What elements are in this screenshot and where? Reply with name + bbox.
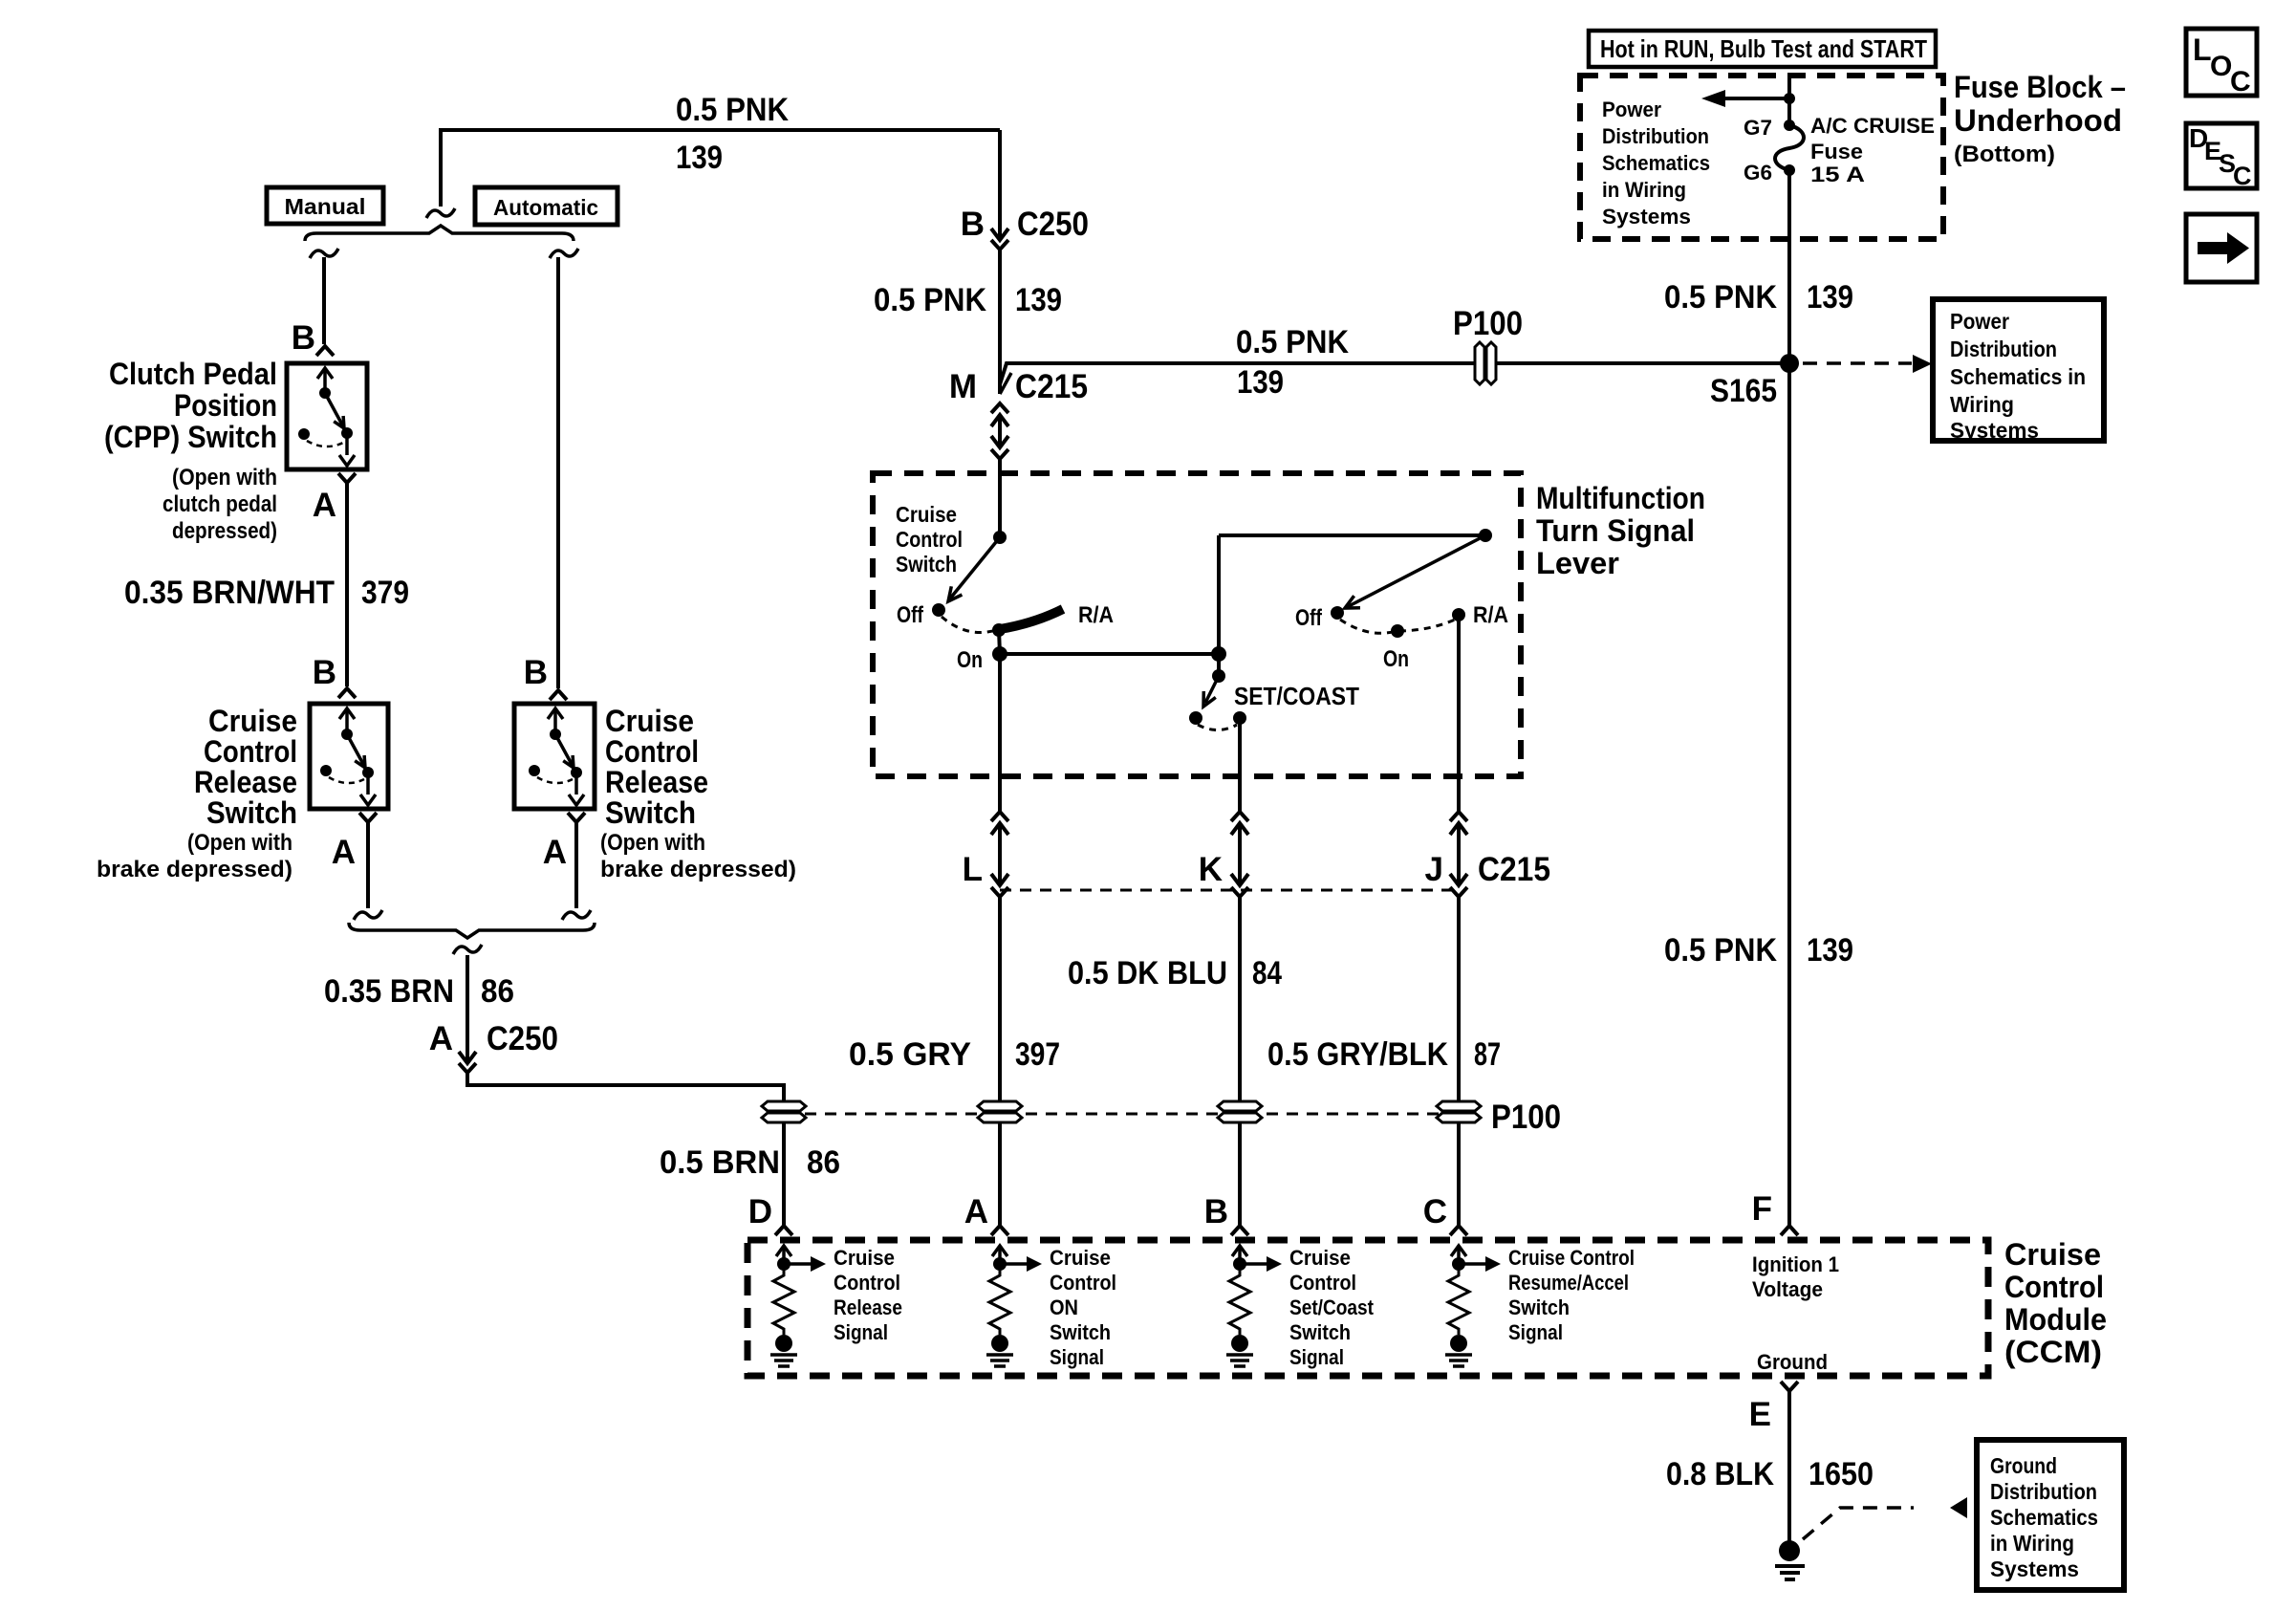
svg-text:Signal: Signal [1050,1345,1104,1369]
svg-text:Release: Release [605,765,708,799]
svg-text:L: L [963,851,983,888]
svg-text:(CPP) Switch: (CPP) Switch [104,420,277,454]
svg-text:depressed): depressed) [172,518,277,544]
wire 0.5 BRN 86 to pin D [660,1123,840,1226]
svg-text:A: A [332,834,356,871]
svg-text:Turn Signal: Turn Signal [1536,513,1695,548]
reference box Ground Distribution Schematics in Wiring Systems [1977,1440,2124,1590]
label Clutch Pedal Position (CPP) Switch [104,357,277,544]
svg-text:0.5 PNK: 0.5 PNK [676,92,789,128]
svg-text:F: F [1752,1190,1772,1228]
dashed arrow to power distribution box [1803,355,1932,373]
svg-text:15 A: 15 A [1810,163,1865,186]
svg-text:C: C [2230,66,2251,98]
box Manual [267,187,383,224]
set/coast switch [1189,654,1359,730]
svg-text:G7: G7 [1744,116,1772,140]
wire: fuse feed from top edge [1787,76,1791,124]
svg-text:Schematics: Schematics [1990,1505,2098,1530]
wire 0.5 GRY 397 [849,897,1060,1101]
svg-text:Control: Control [896,527,963,552]
svg-text:B: B [292,319,315,357]
svg-text:Cruise: Cruise [896,502,957,527]
label Multifunction Turn Signal Lever [1536,481,1705,580]
svg-text:0.5 PNK: 0.5 PNK [1664,279,1777,316]
svg-text:D: D [748,1193,772,1230]
label Cruise Control Switch [896,502,963,577]
grommet P100 (DK BLU wire) [1218,1101,1262,1111]
terminal E of CCM [1749,1382,1798,1433]
svg-text:Control: Control [834,1271,900,1295]
legend box forward arrow [2186,214,2257,282]
svg-text:Cruise: Cruise [208,704,297,738]
terminal A of left release switch [332,813,377,871]
svg-text:B: B [961,206,985,243]
connector K (C215) [1199,812,1248,897]
terminal C of CCM [1423,1193,1467,1235]
svg-text:C250: C250 [487,1020,558,1057]
wire route from A/C250 to CCM pin D [467,1073,784,1101]
wire L column (On switch signal) [998,654,1002,812]
wire: drop from top wire to B C250 [998,130,1002,240]
label Fuse Block - Underhood (Bottom) [1954,70,2126,167]
legend box LOC [2186,29,2257,98]
svg-text:Systems: Systems [1950,418,2039,443]
svg-text:Hot in RUN, Bulb Test and STAR: Hot in RUN, Bulb Test and START [1600,34,1927,63]
svg-text:Signal: Signal [1508,1320,1563,1344]
CCM input: cruise control resume/accel switch signal [1445,1246,1635,1366]
svg-text:R/A: R/A [1078,602,1114,628]
svg-text:139: 139 [676,140,723,176]
wire-end hook (left) [354,910,382,920]
connector A C250 [429,1020,558,1073]
svg-text:Switch: Switch [206,795,297,830]
svg-text:379: 379 [361,575,409,611]
terminal A of CPP switch [313,473,356,524]
svg-text:0.5 PNK: 0.5 PNK [874,282,986,318]
junction dot at riser [1211,646,1226,662]
wire into cruise control switch [998,459,1002,537]
svg-text:Signal: Signal [834,1320,888,1344]
wire 0.5 PNK 139 (C215 to S165 horizontal) [1000,324,1789,401]
svg-text:0.8 BLK: 0.8 BLK [1666,1456,1774,1492]
svg-text:B: B [1204,1193,1228,1230]
connector M C215 [949,368,1088,459]
svg-text:Release: Release [834,1295,902,1319]
svg-text:ON: ON [1050,1295,1078,1319]
svg-text:brake depressed): brake depressed) [600,857,796,882]
svg-text:Underhood: Underhood [1954,103,2122,138]
wire J column (resume/accel) [1457,615,1461,812]
svg-text:(Open with: (Open with [172,465,277,490]
svg-text:G6: G6 [1744,161,1772,185]
svg-text:Set/Coast: Set/Coast [1289,1295,1375,1319]
wire: link to set/coast riser [1000,652,1219,656]
terminal D of CCM [748,1193,792,1235]
svg-text:A: A [964,1193,988,1230]
svg-text:M: M [949,368,977,405]
svg-text:Position: Position [174,388,277,423]
fuse block - underhood (dashed box) [1580,76,1943,239]
cruise control release switch box (manual) [310,704,388,809]
cruise control release switch box (automatic) [514,704,595,809]
connector L (C215) [963,812,1008,897]
label Cruise Control Release Switch (manual) [97,704,297,882]
svg-text:P100: P100 [1491,1099,1561,1136]
svg-text:Off: Off [1295,605,1323,631]
wire DK BLU to pin B [1238,1123,1242,1226]
CPP switch element [298,368,355,466]
svg-text:Ground: Ground [1990,1453,2057,1478]
svg-text:Power: Power [1602,98,1661,121]
svg-text:in Wiring: in Wiring [1990,1531,2074,1556]
svg-text:On: On [1383,646,1409,672]
svg-text:Switch: Switch [1508,1295,1570,1319]
junction dot (On output) [992,646,1007,662]
svg-text:84: 84 [1252,955,1282,991]
grommet P100 (GRY/BLK wire) [1437,1101,1481,1111]
wire K column (set/coast) [1238,718,1242,812]
grommet P100 (BRN wire) [762,1101,806,1111]
svg-text:C250: C250 [1017,206,1089,243]
svg-text:Control: Control [1050,1271,1116,1295]
label Cruise Control Module (CCM) [2004,1237,2107,1369]
right release switch element [529,708,584,805]
riser wire up to resume/accel switch [1217,535,1221,654]
svg-text:Release: Release [194,765,297,799]
inline connector P100 on PNK wire [1453,305,1523,384]
svg-text:86: 86 [807,1144,840,1181]
svg-text:0.5 PNK: 0.5 PNK [1664,932,1777,969]
svg-text:Cruise: Cruise [834,1246,895,1270]
splice S165 [1710,354,1799,409]
note Power Distribution Schematics in Wiring Systems (in fuse block) [1602,98,1710,229]
grommet P100 (GRY wire) [978,1101,1022,1111]
svg-text:C215: C215 [1015,368,1088,405]
svg-text:Module: Module [2004,1302,2107,1337]
svg-text:Schematics: Schematics [1602,151,1710,175]
svg-text:139: 139 [1015,282,1062,318]
merge brace below release switches [349,923,595,938]
svg-text:Off: Off [897,602,924,628]
svg-text:Control: Control [204,734,297,769]
CCM input: cruise control set/coast switch signal [1226,1246,1375,1369]
svg-text:SET/COAST: SET/COAST [1234,682,1359,710]
svg-text:Control: Control [1289,1271,1356,1295]
svg-text:0.5 GRY/BLK: 0.5 GRY/BLK [1267,1036,1448,1073]
wire 0.35 BRN 86 [324,955,514,1063]
svg-text:Voltage: Voltage [1752,1277,1823,1301]
multifunction turn signal lever (dashed box) [873,473,1521,776]
box Automatic [475,187,617,225]
terminal B of left release switch [313,654,356,698]
svg-text:Signal: Signal [1289,1345,1344,1369]
svg-text:Control: Control [2004,1270,2104,1304]
cruise control switch (left, Off/On/RA) [897,531,1114,673]
wire 0.5 PNK 139 from fuse G6 down to S165 [1664,170,1853,363]
svg-text:A: A [313,487,336,524]
svg-text:S165: S165 [1710,373,1777,409]
legend box DESC [2186,123,2257,190]
terminal A of CCM [964,1193,1008,1235]
terminal A of right release switch [543,813,585,871]
svg-text:0.5 DK BLU: 0.5 DK BLU [1068,955,1227,991]
svg-text:Control: Control [605,734,699,769]
wire-end hook (right) [562,910,591,920]
svg-text:Ground: Ground [1757,1350,1828,1374]
svg-text:87: 87 [1474,1036,1501,1073]
svg-text:brake depressed): brake depressed) [97,857,292,882]
svg-text:Manual: Manual [285,194,366,219]
svg-text:397: 397 [1015,1036,1060,1073]
svg-text:(Bottom): (Bottom) [1954,142,2055,167]
svg-text:(CCM): (CCM) [2004,1335,2102,1369]
label Cruise Control Release Switch (automatic) [600,704,796,882]
svg-text:Switch: Switch [1050,1320,1111,1344]
svg-text:Cruise: Cruise [2004,1237,2101,1272]
svg-text:0.5 PNK: 0.5 PNK [1236,324,1349,360]
dashed arrow to ground distribution box [1803,1497,1967,1539]
wire 0.5 PNK 139 top horizontal [441,92,1000,207]
svg-text:Schematics in: Schematics in [1950,364,2086,389]
svg-text:C215: C215 [1478,851,1550,888]
svg-text:K: K [1199,851,1223,888]
svg-text:(Open with: (Open with [187,830,292,856]
svg-text:A/C CRUISE: A/C CRUISE [1810,114,1935,138]
wire On contact down to junction [999,630,1000,654]
svg-text:Cruise: Cruise [605,704,694,738]
svg-text:R/A: R/A [1473,602,1508,628]
svg-text:On: On [957,647,983,673]
wire from right release switch to brace [574,829,578,908]
branch hook (automatic) [550,249,578,258]
clutch pedal position (CPP) switch box [287,363,367,469]
wire GRY/BLK to pin C [1457,1123,1461,1226]
svg-text:O: O [2210,51,2232,82]
connector B C250 [961,206,1089,250]
svg-text:139: 139 [1807,932,1853,969]
CCM input: cruise control ON switch signal [986,1246,1116,1369]
svg-text:Multifunction: Multifunction [1536,481,1705,515]
wire 0.5 GRY/BLK 87 [1267,897,1501,1101]
svg-text:Systems: Systems [1602,205,1691,229]
svg-text:0.5 BRN: 0.5 BRN [660,1144,780,1181]
wire break squiggle above brace [426,208,455,218]
squiggle below merge brace [453,945,482,954]
svg-text:Lever: Lever [1536,546,1619,580]
left release switch element [320,708,376,805]
svg-text:Systems: Systems [1990,1557,2079,1581]
svg-text:Switch: Switch [605,795,696,830]
svg-text:Cruise: Cruise [1289,1246,1351,1270]
svg-text:P100: P100 [1453,305,1523,342]
svg-text:E: E [1749,1396,1771,1433]
svg-text:(Open with: (Open with [600,830,705,856]
svg-text:Switch: Switch [896,552,957,577]
svg-text:B: B [524,654,548,691]
terminal B of right release switch [524,654,567,700]
terminal B of CPP switch [292,319,334,357]
CCM input: cruise control release signal [770,1246,902,1366]
svg-text:clutch pedal: clutch pedal [162,491,277,517]
cruise resume/accel switch (right, Off/On/RA) [1295,529,1508,672]
dashed connector line P100 row [785,1113,1459,1116]
svg-text:139: 139 [1237,364,1284,401]
svg-text:139: 139 [1807,279,1853,316]
svg-text:Wiring: Wiring [1950,392,2014,417]
svg-text:Cruise Control: Cruise Control [1508,1246,1635,1270]
wire 0.5 PNK 139 (S165 to pin F) [1664,363,1853,1226]
svg-text:86: 86 [481,973,514,1010]
dashed connector line C215 [1000,889,1459,892]
svg-text:Automatic: Automatic [493,195,598,220]
svg-text:0.35 BRN: 0.35 BRN [324,973,454,1010]
svg-text:Resume/Accel: Resume/Accel [1508,1271,1629,1295]
svg-text:C: C [1423,1193,1447,1230]
svg-text:Power: Power [1950,309,2009,334]
wire from left release switch to brace [366,829,370,908]
svg-text:Distribution: Distribution [1602,124,1709,148]
wire 0.35 BRN/WHT 379 [124,490,409,686]
ground G305 [1775,1540,1805,1579]
brace over manual/automatic branches [305,226,574,241]
cruise control module CCM (dashed box) [747,1240,1988,1376]
terminal B of CCM [1204,1193,1248,1235]
fuse A/C CRUISE 15 A (G7-G6) [1744,114,1935,186]
svg-text:0.5 GRY: 0.5 GRY [849,1036,971,1073]
svg-text:Ignition 1: Ignition 1 [1752,1252,1839,1276]
svg-text:Cruise: Cruise [1050,1246,1111,1270]
svg-text:C: C [2233,162,2252,190]
wire manual branch down to CPP switch [322,257,326,344]
svg-text:B: B [313,654,336,691]
branch hook (manual) [310,249,338,258]
svg-text:Fuse: Fuse [1810,140,1863,163]
wire automatic branch [556,257,560,688]
connector J C215 [1425,812,1550,897]
wire 0.8 BLK 1650 [1666,1398,1874,1541]
svg-text:in Wiring: in Wiring [1602,178,1686,202]
svg-text:Distribution: Distribution [1990,1479,2097,1504]
svg-text:0.35 BRN/WHT: 0.35 BRN/WHT [124,575,335,611]
arrow to power distribution schematics (left) [1701,90,1795,107]
svg-text:Switch: Switch [1289,1320,1351,1344]
wire 0.5 DK BLU 84 [1068,897,1282,1101]
svg-text:Distribution: Distribution [1950,337,2057,361]
svg-text:A: A [543,834,567,871]
svg-text:Fuse Block –: Fuse Block – [1954,70,2126,104]
reference box Power Distribution Schematics in Wiring Systems [1933,299,2104,443]
svg-text:L: L [2193,33,2212,67]
svg-text:A: A [429,1020,453,1057]
terminal F of CCM (Ignition 1 Voltage) [1752,1190,1839,1301]
wire 0.5 PNK 139 (B to M) [874,250,1062,394]
svg-text:Clutch Pedal: Clutch Pedal [109,357,277,391]
svg-text:1650: 1650 [1809,1456,1874,1492]
svg-text:J: J [1425,851,1443,888]
wire GRY to pin A [998,1123,1002,1226]
header box: Hot in RUN, Bulb Test and START [1589,31,1936,67]
